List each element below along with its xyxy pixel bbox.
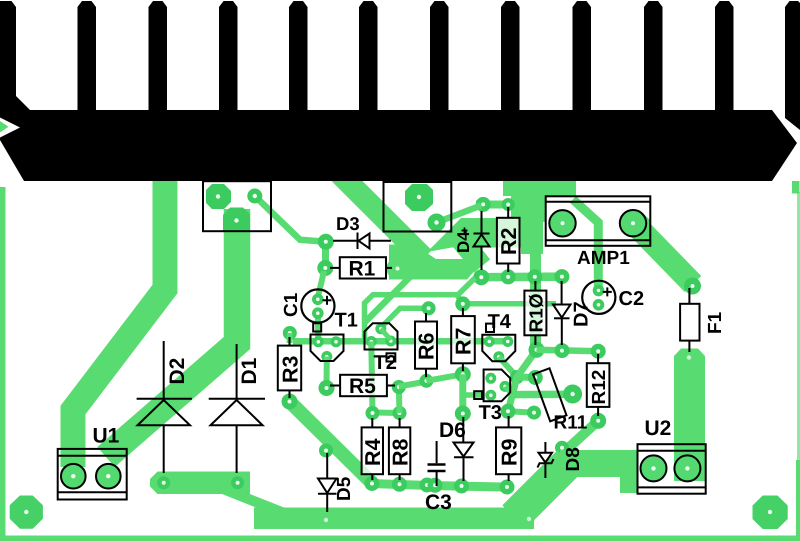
node R11 lower pad (527, 406, 541, 420)
node box1 pad2 (247, 189, 262, 204)
wire trace B: box1 bottom pad down to U1 pad 2 (106, 209, 237, 457)
node R3 bottom pad (282, 394, 298, 410)
diode D8 zener (538, 442, 554, 478)
node R6 bottom pad (419, 374, 433, 388)
wire long horizontal trace y341 (293, 338, 508, 345)
connector U1 (58, 449, 127, 500)
wire board edge left (0, 187, 6, 541)
svg-text:D1: D1 (238, 357, 261, 384)
heatsink fin 1 (0, 1, 31, 113)
heatsink fin 8 (501, 1, 520, 112)
resistor R11 diagonal (533, 368, 566, 421)
node F1 top pad (684, 278, 701, 295)
svg-text:D5: D5 (334, 476, 355, 501)
node R8 top pad (393, 406, 407, 420)
wire bus step from D1 D2 bar (222, 494, 284, 508)
resistor R1 (330, 257, 392, 278)
svg-text:T4: T4 (488, 311, 512, 333)
node R5 left junction pad (319, 380, 335, 396)
node centre copper plane upper-right part (511, 193, 545, 222)
heatsink fin 10 (644, 1, 663, 112)
heatsink fin 11 (715, 1, 734, 112)
svg-text:R1: R1 (349, 258, 376, 281)
wire R10 bottom Y junction (508, 350, 537, 412)
svg-text:T2: T2 (374, 352, 397, 374)
node D6 top pad (455, 406, 471, 422)
wire trace y303.8 R7 top to D7 top (463, 301, 556, 307)
node AMP1 copper pads (550, 210, 576, 236)
diode D2 (137, 341, 192, 473)
wire F1 bottom wide band down to U2 (674, 349, 705, 482)
svg-text:R11: R11 (554, 413, 588, 434)
svg-text:R7: R7 (452, 327, 476, 355)
svg-text:D4: D4 (454, 231, 473, 253)
wire R12 bottom diagonal to bottom bus (564, 421, 598, 452)
wire board edge right (797, 192, 800, 460)
node U2 copper pads (641, 456, 667, 482)
wire AMP1 pad2 diagonal to F1 top (637, 227, 693, 285)
svg-text:R4: R4 (361, 438, 385, 466)
svg-text:R8: R8 (388, 438, 412, 466)
wire vertical V1 left of AMP1 down to R10 bottom (530, 181, 541, 348)
svg-text:R6: R6 (415, 332, 439, 360)
node R1 left pad (317, 260, 333, 276)
node R10 bottom pad (529, 342, 545, 358)
node D5 top junction pad on R3 diagonal (319, 444, 333, 458)
node R1 right pad on plane (387, 258, 409, 280)
svg-text:R1Ø: R1Ø (527, 293, 548, 332)
node pad AMP1 feed (554, 269, 569, 284)
heatsink fin 9 (573, 1, 592, 112)
diode D4 (474, 211, 490, 270)
node notch with green arrow at heatsink left point (0, 118, 20, 138)
heatsink fin 6 (359, 1, 378, 112)
node via on bottom bus diagonal (527, 517, 531, 521)
transistor T4 (482, 324, 515, 362)
resistor R12 (587, 354, 610, 416)
node mounting pad bottom-right (753, 496, 788, 530)
heatsink fin 2 (78, 1, 97, 112)
wire R5 right to R6 bottom (399, 382, 427, 387)
node C2 pads (593, 285, 605, 297)
node mounting pad bottom-left (10, 496, 43, 529)
fuse F1 (680, 288, 699, 352)
svg-text:T1: T1 (335, 310, 358, 332)
svg-text:U2: U2 (645, 417, 672, 440)
node R3 top pad (283, 326, 297, 340)
heatsink fin 4 (219, 1, 238, 112)
wire T2 left pad down to pad row y413 (371, 342, 372, 413)
wire box2 pad2 diagonal to D4 top pad (437, 206, 482, 223)
node T1 pads (313, 336, 324, 347)
resistor R8 (389, 418, 410, 480)
node T3 pads (485, 373, 496, 384)
wire D3 R1 left pads vertical link (322, 242, 329, 268)
diode D7 (553, 281, 571, 345)
wire R1 left pad down to C1 (318, 271, 324, 297)
node D3 left pad (318, 234, 334, 250)
svg-text:D3: D3 (336, 213, 360, 234)
wire T2 internal diagonal (381, 329, 391, 340)
diode D3 (333, 233, 391, 250)
node C1 pad top (312, 294, 324, 306)
wire pad row y204 under heatsink (476, 201, 540, 209)
wire bottom wide bus bar (254, 508, 534, 530)
node pad R2 top (502, 198, 515, 211)
svg-text:R5: R5 (349, 375, 376, 398)
node U1 copper pads (61, 464, 85, 488)
transistor box2 on heatsink (384, 182, 452, 232)
node box1 pad1 (206, 184, 231, 209)
wire bus bar into U2 (560, 450, 638, 477)
svg-text:R3: R3 (278, 355, 302, 383)
node box2 pad2 (428, 214, 446, 232)
svg-text:AMP1: AMP1 (577, 248, 630, 269)
capacitor C2 (582, 281, 615, 314)
node R7 top pad (455, 296, 470, 311)
resistor R5 (330, 375, 395, 396)
svg-text:F1: F1 (705, 311, 726, 334)
svg-text:D7: D7 (570, 301, 592, 327)
node box2 pad1 (405, 184, 433, 211)
heatsink fin 7 (430, 1, 449, 112)
capacitor C3 (428, 441, 446, 486)
wire C3 pad row (371, 484, 512, 488)
heatsink fin 3 (149, 1, 168, 112)
node pad D4 top (476, 197, 491, 212)
wire T1 bottom pad down to R5 left junction (324, 357, 330, 388)
wire trace y351 R10 bottom to R12 top (537, 350, 599, 351)
capacitor C1 (301, 289, 334, 322)
resistor R2 (497, 207, 520, 272)
wire T4 bottom pad to junction (499, 357, 517, 377)
node via on bottom bus below D5 (324, 518, 328, 522)
transistor T3 (474, 370, 510, 402)
diode D6 (454, 417, 474, 481)
resistor R6 (415, 313, 437, 377)
node R12 top pad (591, 344, 606, 359)
node pad on bus left of D8 label (555, 441, 569, 455)
wire C1 bottom pad to T1 pad1 (315, 311, 322, 342)
wire diagonal band C: heatsink to centre plane through box2 (336, 170, 424, 258)
svg-text:R9: R9 (497, 438, 521, 466)
node pad R2 bottom (501, 269, 516, 284)
wire heatsink stub above AMP1 (503, 178, 576, 196)
node R6 top pad (422, 301, 436, 315)
node F1 bottom pad (687, 355, 691, 359)
node R5 right pad (392, 380, 406, 394)
wire R5 right pad to R8 top (396, 387, 403, 413)
node C1 pad bottom (312, 307, 324, 319)
heatsink body (0, 110, 797, 181)
wire R6 bottom diagonal to R7 bottom (426, 374, 462, 381)
svg-text:U1: U1 (93, 425, 120, 448)
wire diagonal pad-row to R7 top (458, 296, 463, 304)
heatsink fin 12 (785, 1, 800, 130)
transistor T1 (311, 323, 344, 361)
wire trace A: heatsink tab box1-left down to U1 pad 1 (73, 178, 165, 467)
node pad V1 row (527, 269, 542, 284)
node T2 pads (375, 323, 386, 334)
node R4 top pad (366, 406, 380, 420)
node D1 D2 cathode bar (150, 472, 250, 495)
svg-text:C3: C3 (425, 491, 452, 514)
wire R3 top stub (287, 333, 293, 343)
node D7 bottom pad (555, 343, 570, 358)
wire stub into T3 pin square (465, 392, 484, 398)
resistor R3 (278, 337, 301, 398)
svg-text:T3: T3 (479, 402, 502, 424)
heatsink fin 5 (289, 1, 308, 112)
node R9 top pad (501, 404, 516, 419)
wire pad row y277 (475, 272, 566, 281)
transistor box1 on heatsink (203, 181, 271, 231)
node via pad right of R11 (563, 385, 582, 404)
node pads on C3 row (365, 476, 380, 491)
svg-text:D6: D6 (439, 419, 466, 442)
wire bus diagonal from C3 row to U2 bar (514, 462, 569, 517)
svg-text:R12: R12 (589, 370, 610, 405)
svg-text:D8: D8 (563, 447, 584, 471)
svg-text:C1: C1 (281, 292, 302, 317)
node R7 bottom pad (455, 366, 471, 382)
svg-text:D2: D2 (166, 358, 189, 385)
node T4 pads (484, 336, 495, 347)
svg-text:C2: C2 (619, 288, 645, 310)
label D4 polarity plus (462, 228, 468, 234)
wire R7 bottom down to D6 top (459, 374, 466, 413)
node pad D4 bottom (473, 269, 489, 285)
wire pad row y413 link (373, 410, 400, 417)
connector AMP1 (546, 196, 651, 246)
wire trace y394.5 to via (511, 390, 573, 398)
node pad R11 upper (528, 370, 543, 385)
wire trace y294.5 with bend to R1 left column (365, 278, 476, 341)
diode D5 (318, 453, 337, 512)
wire diagonal plane to T2 area (365, 262, 425, 322)
wire R3 bottom diagonal to pad row (290, 402, 373, 484)
wire plane diagonal down to D4 bottom pad (452, 229, 482, 266)
wire board edge bottom (0, 536, 800, 541)
resistor R4 (362, 418, 383, 480)
wire box1 pad3 diagonal to D3 left pad (255, 196, 326, 242)
wire AMP1 to C2 plus pad (573, 200, 598, 292)
wire plane lobe right of R2 (521, 218, 543, 254)
resistor R10 (524, 281, 546, 345)
node R12 bottom pad (590, 413, 606, 429)
node centre copper plane mid slab (427, 218, 543, 252)
resistor R9 (496, 416, 521, 481)
diode D1 (209, 344, 265, 473)
node green stub at heatsink right point (792, 181, 800, 194)
transistor T2 (365, 323, 398, 361)
node centre copper plane lower part (389, 245, 477, 280)
node junction pad right of T3 (510, 370, 524, 384)
wire R6 top trace and diagonal to T2 top pad (382, 308, 429, 327)
svg-text:R2: R2 (497, 227, 521, 255)
wire trace R9 top to R11 lower pad (508, 411, 534, 412)
node box1 pad3 bottom (223, 208, 250, 232)
connector U2 (638, 444, 706, 494)
resistor R7 (451, 308, 475, 371)
